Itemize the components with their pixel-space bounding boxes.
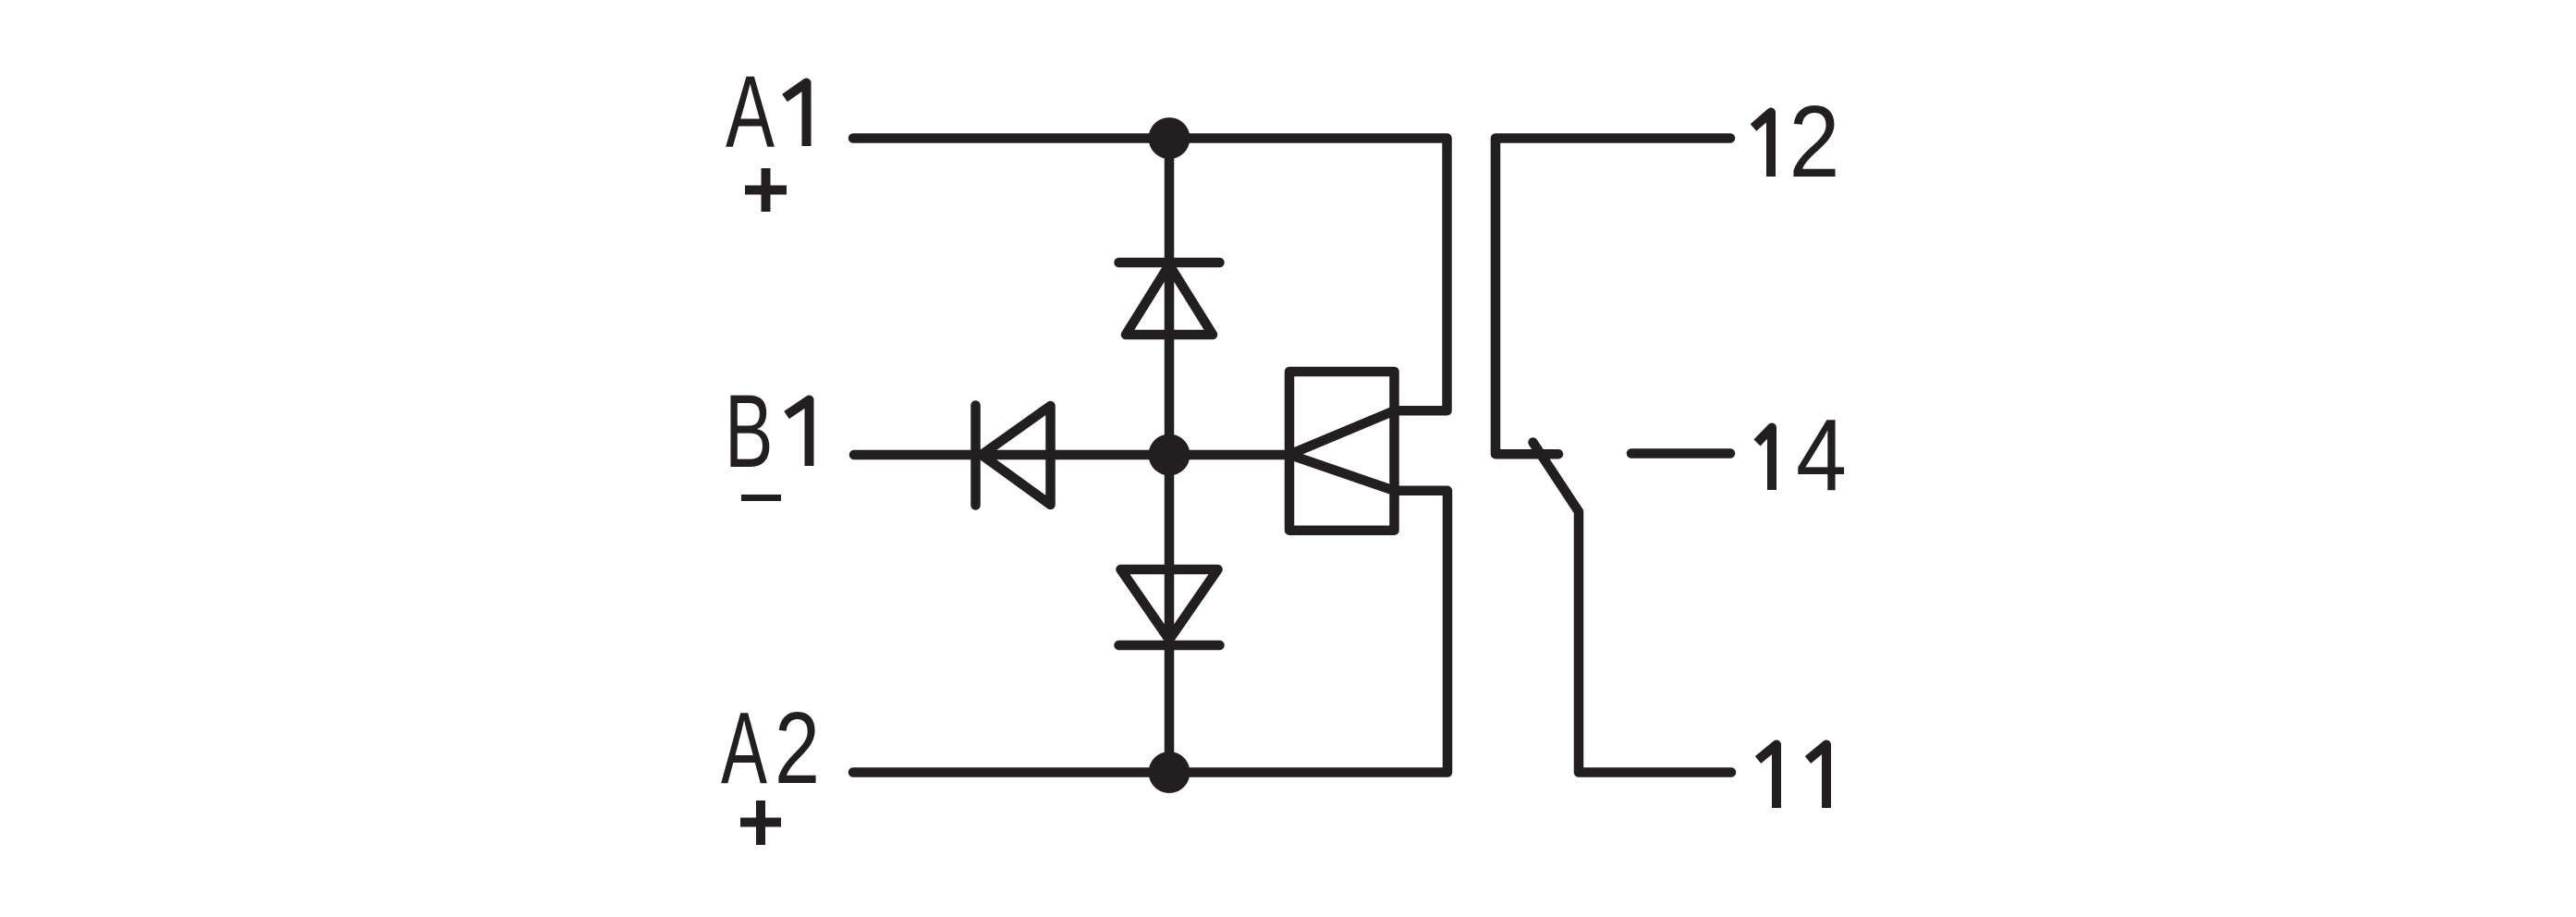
diode D2 cathode bar xyxy=(1119,641,1220,651)
wire contact 14 stub xyxy=(1631,448,1730,458)
polarity sign + for A2 xyxy=(740,801,781,845)
diode D3 cathode bar xyxy=(971,406,981,506)
node junction at A2 xyxy=(1149,752,1190,793)
contact label 11 xyxy=(1758,745,1826,809)
terminal label B1 xyxy=(725,373,810,489)
diode D3 triangle xyxy=(982,406,1051,505)
relay coil polarity triangle xyxy=(1289,410,1395,491)
polarity sign + for A1 xyxy=(745,168,787,212)
svg-text:2: 2 xyxy=(1789,85,1840,199)
diode D2 triangle xyxy=(1121,569,1218,640)
relay coil box xyxy=(1289,372,1395,531)
wire A1 lead to relay coil top stub xyxy=(853,139,1447,411)
node junction at A1 xyxy=(1149,117,1190,159)
switch blade from contact to terminal 11 xyxy=(1533,443,1732,773)
diode D1 cathode bar xyxy=(1119,258,1220,268)
wire center vertical from node A1 to node A2 xyxy=(1165,139,1175,773)
terminal label A2 xyxy=(721,691,820,805)
svg-text:A: A xyxy=(726,55,775,168)
svg-text:4: 4 xyxy=(1796,398,1847,512)
contact label 14 xyxy=(1757,398,1847,512)
terminal label A1 xyxy=(726,55,807,168)
svg-text:B: B xyxy=(725,373,774,489)
diode D1 triangle xyxy=(1126,265,1213,336)
wire A2 lead to relay coil bottom stub xyxy=(853,491,1447,773)
svg-text:2: 2 xyxy=(775,691,820,805)
svg-text:A: A xyxy=(721,691,767,805)
wire B1 lead xyxy=(854,450,1289,460)
wire contact 12 lead and fixed contact bar xyxy=(1496,139,1730,455)
node junction at B1 xyxy=(1149,434,1190,476)
contact label 12 xyxy=(1753,85,1840,199)
polarity sign - for B1 xyxy=(741,495,781,501)
